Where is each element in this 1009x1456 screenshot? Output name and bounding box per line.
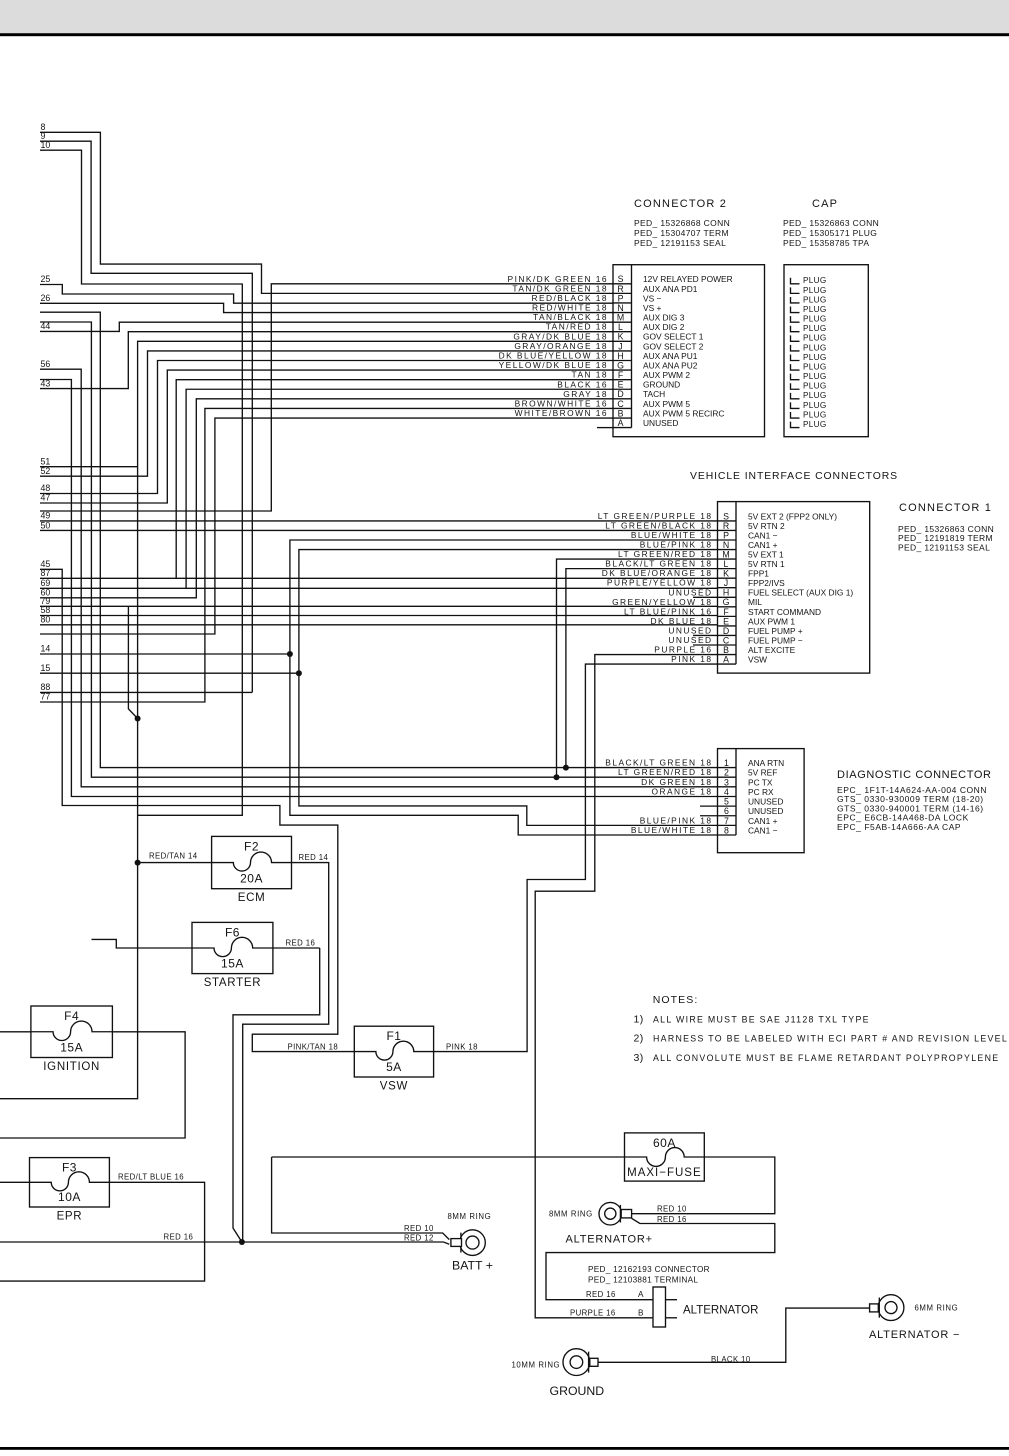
svg-text:AUX PWM 5: AUX PWM 5 (643, 399, 690, 409)
svg-text:8MM RING: 8MM RING (549, 1210, 593, 1219)
diagnostic pin 5 label row (724, 797, 783, 807)
svg-text:AUX ANA PU1: AUX ANA PU1 (643, 351, 698, 361)
wire 8 (conn2 pin R) (40, 132, 613, 293)
svg-text:50: 50 (41, 520, 51, 530)
svg-text:8MM RING: 8MM RING (448, 1212, 492, 1221)
svg-text:J: J (618, 341, 622, 351)
wire U1 (diagnostic pin 1) (40, 312, 718, 767)
wire U4 / conn2 pin S 12V relayed power (40, 284, 613, 511)
cap part numbers (783, 218, 879, 248)
svg-text:FUEL SELECT (AUX DIG 1): FUEL SELECT (AUX DIG 1) (748, 588, 853, 598)
svg-text:R: R (723, 521, 729, 531)
svg-text:B: B (618, 408, 624, 418)
svg-text:BLACK/LT GREEN 18: BLACK/LT GREEN 18 (605, 758, 712, 768)
diagnostic connector body J3 (718, 749, 805, 853)
wire 51 stub (40, 466, 138, 468)
bottom border rule (0, 1447, 1009, 1450)
svg-text:PURPLE 16: PURPLE 16 (654, 645, 712, 655)
svg-text:CAN1 −: CAN1 − (748, 530, 778, 540)
CAN1- bus (conn1 pin P, node 14, diag pin 8) (290, 540, 718, 835)
svg-text:7: 7 (724, 816, 729, 826)
diagnostic pin 3 label row (641, 777, 773, 787)
svg-text:RED 10: RED 10 (404, 1224, 434, 1233)
cap plug row 14 (791, 401, 827, 410)
diagnostic pin 5 unused stub (700, 805, 718, 807)
svg-text:F3: F3 (62, 1161, 77, 1175)
diagnostic pin 4 label row (652, 786, 775, 796)
cap plug row 7 (791, 334, 827, 343)
svg-text:P: P (618, 293, 624, 303)
svg-text:MIL: MIL (748, 597, 762, 607)
svg-text:1): 1) (634, 1014, 644, 1026)
svg-text:H: H (723, 588, 729, 598)
battery feed branch to RED16 line (233, 948, 320, 1242)
svg-text:P: P (723, 530, 729, 540)
cap plug row 15 (791, 410, 827, 419)
svg-text:VS +: VS + (643, 303, 661, 313)
fuse F1 VSW (354, 1026, 433, 1092)
wire 69 (conn1 pin J) (40, 587, 718, 589)
svg-text:DK BLUE/YELLOW 18: DK BLUE/YELLOW 18 (499, 350, 608, 360)
ALT EXCITE wire (conn1 pin B to alternator pin B) (535, 655, 717, 1318)
svg-text:52: 52 (41, 466, 51, 476)
svg-text:BLUE/PINK 18: BLUE/PINK 18 (640, 540, 713, 550)
wire 52 (conn2 pin J) (40, 351, 613, 476)
svg-text:AUX ANA PD1: AUX ANA PD1 (643, 284, 698, 294)
connector 1 pin N label row (640, 540, 778, 550)
diagnostic pin 7 label row (640, 815, 778, 825)
alternator pin B right stub (666, 1317, 678, 1319)
diagnostic pin 2 label row (618, 767, 777, 777)
svg-text:PINK 18: PINK 18 (671, 654, 712, 664)
svg-text:N: N (617, 303, 623, 313)
svg-text:PLUG: PLUG (803, 420, 827, 429)
svg-text:5V EXT 2 (FPP2 ONLY): 5V EXT 2 (FPP2 ONLY) (748, 511, 837, 521)
connector 2 pin J label row (514, 341, 703, 351)
svg-text:56: 56 (41, 359, 51, 369)
connector 1 pin D label row (668, 625, 802, 635)
wire U5 (conn2 pin B) (40, 418, 613, 634)
svg-text:GOV SELECT 1: GOV SELECT 1 (643, 332, 704, 342)
conn2 pin E feeder (186, 389, 613, 588)
wire 49 (conn1 pin S) (40, 520, 718, 522)
svg-text:RED/WHITE 18: RED/WHITE 18 (532, 303, 608, 313)
wire 79 branch diagonal (128, 606, 137, 718)
top border rule (0, 33, 1009, 36)
svg-text:PLUG: PLUG (803, 305, 827, 314)
svg-text:YELLOW/DK BLUE 18: YELLOW/DK BLUE 18 (499, 360, 608, 370)
connector 2 pin M label row (533, 312, 685, 322)
diagnostic pin 6 label row (724, 806, 783, 816)
wire 26 (conn2 pin N) (40, 303, 613, 312)
RED 12 wire to BATT+ (0, 1242, 449, 1244)
svg-text:5V REF: 5V REF (748, 768, 777, 778)
svg-text:ALTERNATOR: ALTERNATOR (683, 1305, 758, 1317)
svg-text:PLUG: PLUG (803, 391, 827, 400)
svg-text:BLACK/LT GREEN 18: BLACK/LT GREEN 18 (605, 559, 712, 569)
connector 1 pin K label row (602, 568, 770, 578)
svg-text:CONNECTOR 1: CONNECTOR 1 (899, 502, 992, 514)
svg-text:5A: 5A (386, 1060, 402, 1074)
connector 1 pin J label row (607, 578, 785, 588)
svg-text:CAN1 +: CAN1 + (748, 816, 778, 826)
F6 left wire (92, 939, 193, 948)
junction node 15 on CAN1+ bus (296, 670, 302, 676)
svg-text:DIAGNOSTIC CONNECTOR: DIAGNOSTIC CONNECTOR (837, 769, 992, 781)
svg-text:AUX ANA PU2: AUX ANA PU2 (643, 360, 698, 370)
connector 1 pin F label row (624, 606, 821, 616)
svg-text:PLUG: PLUG (803, 343, 827, 352)
svg-text:PLUG: PLUG (803, 362, 827, 371)
wire 15 stub (40, 672, 299, 674)
F2 left wire RED/TAN 14 (138, 862, 212, 864)
cap plug row 5 (791, 315, 827, 324)
bus K vertical (conn2 pin K, nodes 51/79, F2 feed) (0, 341, 613, 1098)
svg-text:8: 8 (724, 825, 729, 835)
wire 10 (joins bus at x=137.5) (40, 150, 242, 815)
svg-text:TAN 18: TAN 18 (572, 370, 608, 380)
svg-text:15: 15 (41, 663, 51, 673)
cap body (784, 265, 868, 437)
svg-text:14: 14 (41, 644, 51, 654)
svg-text:2): 2) (634, 1033, 644, 1045)
connector 2 pin H label row (499, 350, 698, 360)
svg-text:A: A (638, 1290, 644, 1299)
cap plug row 11 (791, 372, 827, 381)
svg-text:RED 14: RED 14 (299, 853, 329, 862)
connector 1 pin S label row (598, 511, 837, 521)
svg-text:VS −: VS − (643, 293, 661, 303)
svg-text:FUEL PUMP +: FUEL PUMP + (748, 626, 803, 636)
svg-text:L: L (724, 559, 729, 569)
svg-text:UNUSED: UNUSED (748, 797, 783, 807)
svg-text:E: E (723, 616, 729, 626)
connector 2 pin G label row (499, 360, 698, 370)
svg-text:TAN/BLACK 18: TAN/BLACK 18 (533, 312, 608, 322)
svg-text:ALTERNATOR −: ALTERNATOR − (869, 1329, 960, 1341)
conn1 pin M to diagnostic pin 2 (557, 559, 718, 777)
svg-text:10A: 10A (58, 1190, 81, 1204)
svg-text:10MM RING: 10MM RING (512, 1360, 561, 1369)
connector 1 pin H unused stub (693, 596, 718, 598)
wire 77 (conn2 pin C) (40, 408, 613, 702)
svg-text:77: 77 (41, 692, 51, 702)
svg-text:15A: 15A (221, 957, 244, 971)
svg-text:G: G (723, 597, 730, 607)
wire 9 (to node 88 bus) (40, 141, 252, 692)
connector 1 pin M label row (618, 549, 784, 559)
wire 44 (conn2 pin M) (40, 322, 613, 331)
wire 43 (conn2 pin L) (40, 332, 613, 389)
cap plug row 4 (791, 305, 827, 314)
connector 1 pin P label row (631, 530, 778, 540)
alternator connector part numbers (588, 1265, 710, 1285)
svg-text:UNUSED: UNUSED (668, 635, 712, 645)
svg-text:RED/BLACK 18: RED/BLACK 18 (531, 293, 608, 303)
svg-text:F4: F4 (64, 1009, 79, 1023)
svg-text:PLUG: PLUG (803, 353, 827, 362)
svg-text:PINK/DK GREEN 16: PINK/DK GREEN 16 (508, 274, 608, 284)
svg-text:ORANGE 18: ORANGE 18 (652, 786, 713, 796)
junction RED16 battery line (239, 1239, 245, 1245)
svg-text:PED_ 15326868 CONN: PED_ 15326868 CONN (634, 218, 730, 228)
svg-text:LT GREEN/RED 18: LT GREEN/RED 18 (618, 767, 713, 777)
svg-text:AUX PWM 1: AUX PWM 1 (748, 616, 795, 626)
fuse F4 IGNITION (31, 1006, 113, 1073)
RED 16 wire alternator+ return (546, 1218, 775, 1299)
connector 2 pin R label row (512, 283, 697, 293)
wire 56 (diagnostic pin 3) (40, 369, 718, 787)
svg-text:TACH: TACH (643, 389, 665, 399)
connector 2 pin S label row (508, 274, 733, 284)
wire 25 (conn2 pin P) (40, 285, 613, 304)
connector 2 pin F label row (572, 370, 691, 380)
svg-text:BROWN/WHITE 16: BROWN/WHITE 16 (515, 398, 608, 408)
connector 2 pin B label row (515, 408, 725, 418)
svg-text:ALL CONVOLUTE MUST BE FLAME RE: ALL CONVOLUTE MUST BE FLAME RETARDANT PO… (653, 1053, 999, 1063)
svg-text:2: 2 (724, 768, 729, 778)
connector 2 pin C label row (515, 398, 691, 408)
svg-text:S: S (618, 274, 624, 284)
wire 80 (conn1 pin E) (40, 624, 718, 626)
MAXI-FUSE right wire RED 10 to alternator+ (632, 1157, 775, 1214)
svg-text:K: K (618, 332, 624, 342)
svg-text:UNUSED: UNUSED (668, 625, 712, 635)
svg-text:FUEL PUMP −: FUEL PUMP − (748, 635, 803, 645)
ring terminal ALTERNATOR- 6MM (870, 1295, 904, 1321)
connector 1 pin H label row (668, 587, 853, 597)
svg-text:GRAY/DK BLUE 18: GRAY/DK BLUE 18 (513, 331, 608, 341)
cap plug row 3 (791, 295, 827, 304)
svg-text:3: 3 (724, 777, 729, 787)
svg-text:PC TX: PC TX (748, 777, 773, 787)
svg-text:RED 16: RED 16 (164, 1232, 194, 1241)
svg-text:BLUE/WHITE 18: BLUE/WHITE 18 (631, 530, 713, 540)
cap plug row 1 (791, 276, 827, 285)
cap plug row 2 (791, 286, 827, 295)
svg-text:LT GREEN/PURPLE 18: LT GREEN/PURPLE 18 (598, 511, 713, 521)
svg-text:12V RELAYED POWER: 12V RELAYED POWER (643, 274, 733, 284)
wire U3 (diagnostic pin 4) (40, 380, 718, 797)
CAN1+ bus (conn1 pin N, node 15, diag pin 7) (299, 550, 718, 826)
svg-text:RED 16: RED 16 (286, 939, 316, 948)
svg-text:CAN1 −: CAN1 − (748, 825, 778, 835)
cap plug row 16 (791, 420, 827, 429)
svg-text:CAP: CAP (812, 198, 838, 210)
connector 2 pin E label row (557, 379, 680, 389)
svg-text:47: 47 (41, 493, 51, 503)
svg-text:PED_ 15304707 TERM: PED_ 15304707 TERM (634, 228, 729, 238)
diagnostic pin 1 label row (605, 758, 784, 768)
wire U2 (diagnostic pin 2) (40, 322, 718, 777)
svg-text:RED 16: RED 16 (657, 1215, 687, 1224)
svg-text:5V EXT 1: 5V EXT 1 (748, 549, 784, 559)
svg-text:BLACK 16: BLACK 16 (557, 379, 608, 389)
svg-text:E: E (618, 380, 624, 390)
svg-text:R: R (617, 284, 623, 294)
svg-text:TAN/RED 18: TAN/RED 18 (546, 322, 608, 332)
F2 right wire RED 14 (243, 863, 329, 1242)
F3 right wire RED/LT BLUE 16 (0, 1182, 205, 1281)
svg-text:26: 26 (41, 293, 51, 303)
fuse F2 ECM (212, 836, 292, 904)
junction node 79/51 bus (135, 716, 141, 722)
svg-text:D: D (617, 389, 623, 399)
svg-text:STARTER: STARTER (204, 977, 262, 989)
svg-text:BLUE/PINK 18: BLUE/PINK 18 (640, 815, 713, 825)
cap plug row 10 (791, 362, 827, 371)
ring terminal GROUND 10MM (563, 1349, 598, 1376)
connector 2 pin A unused stub (597, 427, 613, 429)
connector 1 pin C label row (668, 635, 802, 645)
svg-text:PED_ 12191153 SEAL: PED_ 12191153 SEAL (634, 238, 726, 248)
fuse 60A MAXI-FUSE (625, 1133, 705, 1181)
svg-text:LT GREEN/RED 18: LT GREEN/RED 18 (618, 549, 713, 559)
connector 1 pin R label row (605, 520, 785, 530)
alternator connector body (653, 1287, 666, 1327)
fuse F6 STARTER (192, 922, 273, 989)
wire 58 (conn1 pin F) (40, 615, 718, 617)
svg-text:D: D (723, 626, 729, 636)
diagnostic connector part numbers (837, 785, 987, 832)
svg-text:CAN1 +: CAN1 + (748, 540, 778, 550)
svg-text:PED_ 12191153 SEAL: PED_ 12191153 SEAL (898, 542, 990, 552)
svg-text:F: F (618, 370, 624, 380)
svg-text:PLUG: PLUG (803, 334, 827, 343)
svg-text:H: H (617, 351, 623, 361)
svg-text:EPC_ F5AB-14A666-AA CAP: EPC_ F5AB-14A666-AA CAP (837, 822, 961, 832)
junction 5V REF (554, 774, 560, 780)
svg-text:5: 5 (724, 797, 729, 807)
svg-text:GROUND: GROUND (550, 1384, 605, 1398)
svg-text:M: M (722, 549, 729, 559)
svg-text:PLUG: PLUG (803, 410, 827, 419)
svg-text:PED_ 15326863 CONN: PED_ 15326863 CONN (783, 218, 879, 228)
svg-text:PLUG: PLUG (803, 382, 827, 391)
svg-text:VSW: VSW (748, 655, 767, 665)
connector 2 part numbers (634, 218, 730, 248)
svg-text:PURPLE/YELLOW 18: PURPLE/YELLOW 18 (607, 578, 713, 588)
connector 2 pin P label row (531, 293, 661, 303)
note 3 (634, 1052, 1000, 1064)
svg-text:PINK 18: PINK 18 (446, 1043, 478, 1052)
svg-text:ECM: ECM (238, 892, 266, 904)
svg-text:DK GREEN 18: DK GREEN 18 (641, 777, 712, 787)
svg-text:S: S (723, 511, 729, 521)
cap plug row 9 (791, 353, 827, 362)
connector 2 pin L label row (546, 322, 685, 332)
svg-text:PLUG: PLUG (803, 401, 827, 410)
connector 1 part numbers (898, 524, 994, 552)
diagnostic pin 6 unused stub (700, 815, 718, 817)
svg-text:RED 16: RED 16 (586, 1290, 616, 1299)
BLACK 10 wire ground to alternator- (598, 1308, 870, 1362)
svg-text:69: 69 (41, 578, 51, 588)
svg-text:VEHICLE INTERFACE CONNECTORS: VEHICLE INTERFACE CONNECTORS (690, 471, 898, 482)
svg-text:FPP1: FPP1 (748, 569, 769, 579)
svg-text:GOV SELECT 2: GOV SELECT 2 (643, 341, 704, 351)
wire 48 (conn2 pin H) (40, 360, 613, 493)
svg-text:PLUG: PLUG (803, 315, 827, 324)
svg-text:IGNITION: IGNITION (43, 1061, 100, 1073)
svg-text:AUX PWM 5 RECIRC: AUX PWM 5 RECIRC (643, 408, 724, 418)
svg-text:BLACK 10: BLACK 10 (711, 1355, 751, 1364)
connector 1 body J2 (718, 502, 870, 673)
MAXI-FUSE left wire to battery (272, 1156, 625, 1158)
svg-text:20A: 20A (240, 872, 263, 886)
svg-text:6MM RING: 6MM RING (915, 1304, 959, 1313)
connector 2 pin D label row (563, 389, 665, 399)
svg-text:RED/LT BLUE 16: RED/LT BLUE 16 (118, 1172, 184, 1181)
svg-text:NOTES:: NOTES: (653, 994, 699, 1006)
connector 2 pin A label row (618, 418, 679, 428)
svg-text:6: 6 (724, 806, 729, 816)
ring terminal ALTERNATOR+ 8MM (599, 1202, 632, 1225)
svg-text:5V RTN 2: 5V RTN 2 (748, 521, 785, 531)
svg-text:B: B (723, 645, 729, 655)
svg-text:K: K (723, 569, 729, 579)
svg-text:PED_ 12162193 CONNECTOR: PED_ 12162193 CONNECTOR (588, 1265, 710, 1274)
svg-text:49: 49 (41, 511, 51, 521)
cap plug row 13 (791, 391, 827, 400)
svg-text:GRAY 18: GRAY 18 (563, 389, 608, 399)
svg-text:PURPLE 16: PURPLE 16 (570, 1308, 616, 1317)
top gray header band (0, 0, 1009, 33)
connector 1 pin E label row (651, 616, 796, 626)
connector 1 pin L label row (605, 559, 785, 569)
svg-text:M: M (617, 313, 624, 323)
svg-text:PLUG: PLUG (803, 324, 827, 333)
svg-text:LT GREEN/BLACK 18: LT GREEN/BLACK 18 (605, 520, 712, 530)
svg-text:ALTERNATOR+: ALTERNATOR+ (566, 1234, 653, 1246)
svg-text:F2: F2 (244, 839, 259, 853)
fuse F3 EPR (30, 1158, 110, 1223)
svg-text:PED_ 12103881 TERMINAL: PED_ 12103881 TERMINAL (588, 1276, 698, 1285)
svg-text:ALL WIRE MUST BE SAE J1128 TXL: ALL WIRE MUST BE SAE J1128 TXL TYPE (653, 1015, 870, 1025)
svg-text:CONNECTOR 2: CONNECTOR 2 (634, 198, 727, 210)
wire 87 (conn1 pin K) (40, 577, 718, 579)
svg-text:PINK/TAN 18: PINK/TAN 18 (288, 1043, 339, 1052)
svg-text:RED 12: RED 12 (404, 1233, 434, 1242)
connector 1 pin D unused stub (693, 634, 718, 636)
cap plug row 8 (791, 343, 827, 352)
svg-text:60A: 60A (653, 1136, 676, 1150)
svg-text:HARNESS TO BE LABELED WITH ECI: HARNESS TO BE LABELED WITH ECI PART # AN… (653, 1034, 1008, 1044)
svg-text:F6: F6 (225, 925, 240, 939)
connector 1 pin B label row (654, 645, 795, 655)
svg-text:PED_ 15358785 TPA: PED_ 15358785 TPA (783, 238, 869, 248)
svg-text:PED_ 15305171 PLUG: PED_ 15305171 PLUG (783, 228, 877, 238)
svg-text:GRAY/ORANGE 18: GRAY/ORANGE 18 (514, 341, 608, 351)
connector 2 pin N label row (532, 303, 662, 313)
wire 79 (conn1 pin G) (40, 605, 718, 607)
svg-text:DK BLUE/ORANGE 18: DK BLUE/ORANGE 18 (602, 568, 713, 578)
svg-text:C: C (723, 635, 730, 645)
wire 88 stub (40, 691, 252, 693)
junction ANA RTN (563, 765, 569, 771)
ring terminal BATT+ 8MM (451, 1230, 485, 1256)
svg-text:25: 25 (41, 274, 51, 284)
svg-text:5V RTN 1: 5V RTN 1 (748, 559, 785, 569)
alternator pin A right stub (666, 1299, 678, 1301)
svg-text:EPR: EPR (57, 1211, 83, 1223)
svg-text:RED/TAN 14: RED/TAN 14 (149, 852, 198, 861)
svg-text:PLUG: PLUG (803, 295, 827, 304)
svg-text:L: L (618, 322, 623, 332)
svg-text:48: 48 (41, 483, 51, 493)
svg-text:51: 51 (41, 456, 51, 466)
connector 1 pin A label row (671, 654, 767, 664)
